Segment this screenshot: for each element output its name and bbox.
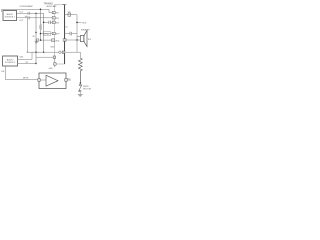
- pin box 1: [52, 11, 55, 13]
- cap stub left: [36, 39, 37, 41]
- pin box on right edge: [63, 39, 66, 41]
- mute button switch: [79, 84, 81, 86]
- bypass cap CB box: [43, 32, 50, 36]
- cap to pin wire: [41, 39, 52, 41]
- jog vertical x43.6: [43, 13, 45, 52]
- svg-text:GND: GND: [49, 68, 54, 70]
- svg-text:8: 8: [63, 52, 64, 54]
- speaker box: [80, 35, 84, 41]
- gnd pin stem: [54, 58, 56, 62]
- pin box sd right: [62, 51, 65, 53]
- wire top to pin 1: [41, 9, 53, 12]
- svg-text:MUTE: MUTE: [23, 78, 29, 80]
- svg-text:VDD: VDD: [82, 22, 87, 24]
- svg-text:IN2: IN2: [56, 18, 59, 20]
- mute wire to sd chain: [65, 51, 81, 53]
- node dot A: [35, 13, 36, 14]
- svg-text:AUDIO AMP: AUDIO AMP: [47, 5, 58, 8]
- resistor R1 zigzag: [79, 58, 83, 83]
- node dot sd wire a: [35, 52, 36, 53]
- stub into triangle: [40, 79, 46, 81]
- capacitor plates: [37, 38, 38, 41]
- feedback vertical x40.5: [40, 9, 42, 21]
- svg-text:2: 2: [53, 22, 54, 24]
- output cap plates: [70, 32, 72, 36]
- svg-text:3: 3: [53, 18, 54, 20]
- node dot jog: [43, 22, 45, 24]
- svg-text:IN3: IN3: [56, 22, 59, 24]
- node dot sd wire b: [43, 52, 44, 53]
- amp block box bottom: [39, 73, 66, 89]
- svg-text:BUTTON: BUTTON: [83, 88, 91, 90]
- feedback vertical upper part: [40, 22, 42, 25]
- svg-text:5: 5: [66, 80, 67, 82]
- ground symbol bottom: [78, 94, 83, 96]
- wire with series cap into pin 3: [44, 21, 53, 23]
- node dot mute btn: [80, 82, 82, 84]
- audio source 2 box: [3, 56, 18, 66]
- junction dots: [32, 9, 81, 84]
- svg-text:AUDIO: AUDIO: [7, 58, 14, 61]
- IC box U1: [55, 5, 65, 64]
- series cap box on out wire: [68, 13, 71, 16]
- capacitor CC2 plates on wire B: [28, 16, 29, 19]
- gnd pin box bottom: [54, 63, 57, 65]
- pin wire y57: [36, 56, 53, 58]
- labels: [1, 3, 92, 91]
- mix vertical x27.6: [28, 18, 32, 52]
- output cap wire: [65, 33, 77, 35]
- vdd branch wire: [77, 21, 82, 23]
- svg-text:5: 5: [54, 57, 55, 59]
- pin box 2: [52, 17, 55, 19]
- capacitor CC1 plates on wire A: [28, 12, 29, 15]
- svg-text:AUDIO: AUDIO: [7, 13, 14, 16]
- svg-text:4: 4: [53, 13, 54, 15]
- svg-text:CC1: CC1: [19, 11, 23, 13]
- speaker cone: [84, 31, 87, 47]
- svg-text:2: 2: [39, 80, 40, 82]
- svg-text:SOURCE 1: SOURCE 1: [5, 16, 16, 18]
- wire out of amp: [67, 79, 71, 81]
- bypass cap CB wire: [41, 33, 53, 35]
- pin box on amp right: [65, 79, 68, 81]
- svg-text:1: 1: [53, 33, 54, 35]
- svg-text:CIN2: CIN2: [19, 56, 23, 58]
- node dot vo2: [76, 39, 77, 40]
- op-amp triangle: [46, 75, 58, 86]
- wire from source 2 upper: [18, 52, 41, 59]
- node dot x36 mid: [35, 32, 36, 33]
- background: [0, 0, 100, 100]
- svg-text:SYSTEM BEEP: SYSTEM BEEP: [20, 6, 34, 8]
- svg-text:CI2: CI2: [25, 62, 28, 64]
- node dot cap gnd: [40, 39, 42, 41]
- pin box y57: [53, 56, 56, 58]
- node dot vdd: [76, 22, 78, 24]
- svg-text:VDD: VDD: [55, 40, 60, 42]
- wire into amp: [5, 66, 37, 79]
- pin box 5: [52, 39, 55, 42]
- svg-text:SOURCE 2: SOURCE 2: [5, 62, 16, 64]
- svg-text:1µF: 1µF: [25, 16, 28, 18]
- svg-text:GND: GND: [50, 47, 55, 49]
- long top wire: [2, 9, 41, 12]
- pin numbers: [39, 13, 67, 82]
- svg-text:5: 5: [64, 40, 65, 42]
- svg-text:CC2: CC2: [19, 20, 23, 22]
- gnd stub below: [54, 65, 56, 67]
- node dot in2: [35, 63, 36, 64]
- wire A from source 1: [17, 12, 44, 14]
- ground stem: [35, 40, 37, 42]
- cap plates pin3: [49, 21, 51, 24]
- svg-text:7: 7: [54, 64, 55, 66]
- node dot top: [40, 9, 42, 11]
- circle component: [59, 51, 61, 53]
- svg-text:6: 6: [53, 40, 54, 42]
- svg-text:SPEAKER: SPEAKER: [81, 28, 90, 31]
- pin box on amp left: [38, 79, 41, 81]
- pin box 4: [52, 32, 55, 34]
- ground symbol: [35, 42, 39, 44]
- svg-text:IN1: IN1: [56, 13, 59, 15]
- sd pin wire with circle: [32, 51, 62, 53]
- audio source 1 box: [3, 11, 17, 21]
- input node vertical x36: [35, 13, 37, 63]
- IC right edge dark: [64, 5, 66, 64]
- svg-text:CB 1µ: CB 1µ: [44, 34, 49, 36]
- wire B from source 1: [17, 17, 53, 19]
- wire below resistor: [79, 71, 81, 84]
- pin box 3: [52, 21, 55, 23]
- top tick: [63, 3, 67, 5]
- wire to ground: [79, 92, 81, 95]
- output 2 wire to speaker return: [65, 36, 81, 58]
- vdd/out wire right of IC: [65, 15, 81, 37]
- wire from source 2 lower: [18, 63, 36, 65]
- node dot CB: [40, 33, 42, 35]
- resistor Ri on feedback vertical: [39, 25, 41, 41]
